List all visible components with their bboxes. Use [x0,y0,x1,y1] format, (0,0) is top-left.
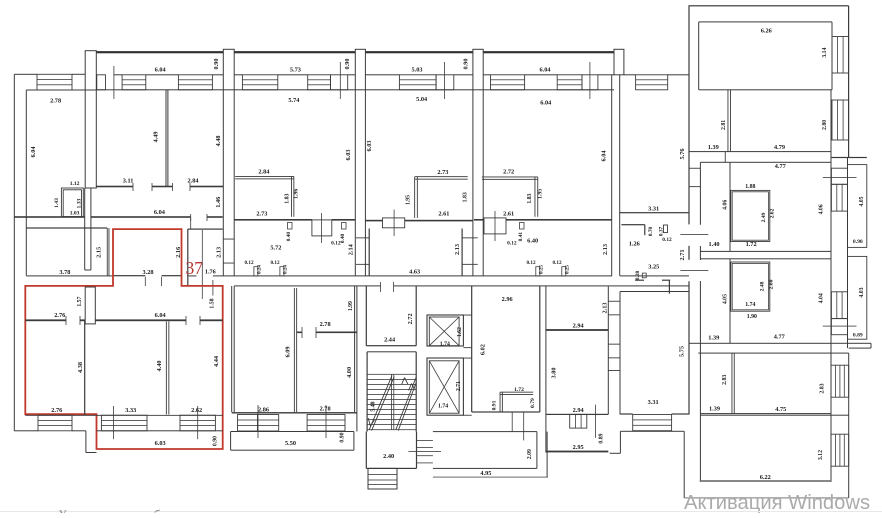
stair walls [367,352,368,432]
wall dbl right [608,286,609,414]
wall loggia s2 [234,74,242,75]
svg-text:3.11: 3.11 [123,178,134,185]
svg-text:2.86: 2.86 [258,407,269,414]
apt2 window divider [256,415,259,432]
window 4.04 [831,292,847,319]
svg-text:2.95: 2.95 [573,444,584,451]
svg-text:4.04: 4.04 [818,293,824,303]
svg-text:0.12: 0.12 [552,260,561,266]
elevator X 1 [429,317,459,346]
svg-text:37: 37 [186,258,204,278]
apt37 window b [101,415,147,431]
svg-text:6.04: 6.04 [601,150,608,162]
rooms 1.39/4.79 divider [727,90,730,152]
apt B bathroom [731,262,770,311]
wall loggia s1 [114,74,122,75]
balcony door s1 [97,75,106,90]
apt2 walls left [231,286,232,412]
wing right wall mid [847,157,848,348]
svg-text:2.44: 2.44 [384,337,396,344]
svg-text:1.72: 1.72 [514,387,524,393]
pier P4 wall [472,90,473,276]
svg-text:6.04: 6.04 [155,312,167,319]
apt B divider [730,259,731,344]
svg-text:2.09: 2.09 [527,449,533,459]
vent b [280,267,284,276]
svg-text:2.72: 2.72 [503,169,514,176]
hall 4.63 side walls [369,229,370,276]
svg-text:2.62: 2.62 [191,407,202,414]
window s5 [636,75,668,90]
apt C divider [731,353,734,414]
apt2 door tick [301,327,304,338]
window s4a [491,75,525,90]
window 4.06 [831,184,847,211]
apt37 wall mid rooms [165,321,168,414]
svg-text:5.74: 5.74 [288,97,300,104]
svg-text:5.72: 5.72 [270,245,281,252]
stair arrow up 2 [409,384,412,391]
svg-text:5.76: 5.76 [679,148,686,159]
tab bottom door [113,275,145,276]
pier P1 column [85,51,96,188]
outer wall top thick [96,51,614,53]
window 3.31 [633,415,672,431]
room 2.78 top face [26,90,96,91]
svg-text:1.43: 1.43 [54,198,60,208]
entry steps [368,468,397,489]
pier P2 column [223,49,234,90]
svg-text:0.12: 0.12 [526,260,535,266]
stair center divider [390,374,393,429]
svg-text:4.75: 4.75 [775,406,786,413]
porch door tick [408,450,441,453]
elevator X 2 [429,361,459,413]
svg-text:0.12: 0.12 [244,260,253,266]
svg-text:1.83: 1.83 [527,193,533,203]
hall 1.76 walls [187,229,188,286]
apt37 hall wall [25,319,66,321]
apt2 window b [307,415,345,432]
svg-text:1.58: 1.58 [210,298,216,308]
corridor band lower line [234,285,380,286]
svg-text:2.84: 2.84 [187,178,199,185]
window 3.12 [831,434,849,466]
porch steps [417,439,433,442]
svg-text:0.90: 0.90 [462,58,469,69]
svg-text:1.62: 1.62 [457,327,463,337]
apt2 entry door [312,220,332,236]
room 2.13/2.94 walls [546,329,608,331]
wing band1 [689,151,831,152]
svg-text:1.33: 1.33 [76,199,82,209]
lobby exit ticks [511,412,514,432]
svg-text:0.25: 0.25 [565,265,571,274]
svg-text:2.94: 2.94 [573,323,585,330]
svg-text:0.90: 0.90 [213,436,219,446]
svg-text:5.48: 5.48 [370,401,376,411]
apt37 window a [38,415,72,431]
apt C bottom [700,413,831,414]
corridor door jambs [189,214,192,221]
svg-text:1.40: 1.40 [708,241,719,248]
svg-text:2.78: 2.78 [50,98,61,105]
svg-text:0.90: 0.90 [213,58,220,69]
apt2 win tick b [325,405,328,438]
balcony band top [831,157,867,158]
svg-text:1.57: 1.57 [77,296,83,306]
apt2 win tick a [257,405,260,438]
svg-text:3.28: 3.28 [142,269,153,276]
svg-text:0.40: 0.40 [286,232,292,242]
svg-text:1.95: 1.95 [538,189,544,199]
window tick s4 [589,62,592,99]
svg-text:1.46: 1.46 [215,197,222,208]
shaft wall rungs [463,314,471,317]
svg-text:3.80: 3.80 [551,367,558,378]
svg-text:0.91: 0.91 [491,400,497,410]
svg-text:2.81: 2.81 [721,120,727,130]
wing band2 [700,251,831,252]
svg-text:2.80: 2.80 [822,120,828,130]
svg-text:0.79: 0.79 [530,398,536,408]
room 3.78 box [26,227,107,228]
svg-text:0.12: 0.12 [507,240,517,246]
rooms top line [96,89,223,90]
apt37 win tick b [196,406,199,439]
wall loggia s4 [483,74,490,75]
window s1a [122,75,146,90]
window 4.04 sidelight [831,319,847,335]
svg-text:1.74: 1.74 [438,404,448,410]
svg-text:2.61: 2.61 [503,211,514,218]
svg-text:5.04: 5.04 [416,96,428,103]
svg-text:6.04: 6.04 [540,100,552,107]
apt37 red outline [25,229,222,449]
svg-text:3.31: 3.31 [648,205,659,212]
svg-text:6.26: 6.26 [761,28,772,35]
svg-text:1.90: 1.90 [747,314,757,320]
apt37 pier [85,287,95,324]
window s4b [557,75,582,90]
svg-text:6.03: 6.03 [345,149,352,160]
apt1 bathroom [235,175,294,178]
svg-text:1.95: 1.95 [406,195,412,205]
svg-text:0.38: 0.38 [635,270,641,280]
vent 0.38 [642,273,646,278]
lobby closet [500,391,533,394]
apt A divider [730,162,731,251]
svg-text:6.40: 6.40 [527,237,538,244]
hall 4.63 top wall [365,220,382,222]
svg-text:2.60: 2.60 [769,279,775,289]
niche 1.26 wall [621,224,644,225]
wall top left [14,74,37,75]
room 3.31/5.75 [620,291,689,292]
svg-text:2.15: 2.15 [95,247,102,258]
apt A bathroom [731,190,770,241]
apt3 bathroom [482,176,538,179]
stair arrow up 1 [402,378,405,385]
svg-text:0.89: 0.89 [853,333,863,339]
svg-text:2.94: 2.94 [573,407,585,414]
wall loggia s3 [365,74,399,75]
apt3 entry door [484,218,506,234]
svg-text:2.73: 2.73 [256,211,267,218]
svg-text:2.83: 2.83 [820,383,826,393]
svg-text:3.78: 3.78 [59,269,70,276]
svg-text:Характеристика базового жилья: Характеристика базового жилья [58,508,242,514]
wing inner left [700,162,701,225]
window 4.06 sidelight [831,168,847,184]
window tick s1 [113,66,116,99]
svg-text:2.78: 2.78 [320,321,331,328]
wing top wall [689,5,849,6]
vestibule 2.44 [366,286,367,346]
stair flight 2 rail [396,378,416,430]
svg-text:2.13: 2.13 [216,247,223,258]
svg-text:0.90: 0.90 [344,58,351,69]
core-right wall [545,286,546,453]
svg-text:6.03: 6.03 [155,440,166,447]
wing door ticks [680,233,708,236]
pier P3 wall [355,90,356,276]
svg-text:0.90: 0.90 [853,239,863,245]
svg-text:0.40: 0.40 [340,233,346,243]
svg-text:0.12: 0.12 [331,240,341,246]
bottom rule [0,511,882,512]
svg-text:2.49: 2.49 [761,212,767,222]
svg-text:3.25: 3.25 [648,264,659,271]
apt2 bottom wall [232,412,357,413]
svg-text:2.62: 2.62 [770,208,776,218]
window 3.14 [832,37,849,74]
corridor band bottom line [26,275,113,276]
svg-text:Активация Windows: Активация Windows [684,492,870,513]
balcony 2 [848,256,867,339]
svg-text:4.48: 4.48 [215,135,222,146]
window s2a [242,75,277,90]
elevator shaft 2 [427,358,463,415]
svg-text:0.25: 0.25 [539,265,545,274]
stair flight 1 rail [369,376,392,430]
svg-text:0.37: 0.37 [658,226,664,236]
svg-text:0.12: 0.12 [270,260,279,266]
stair steps [367,373,416,376]
svg-text:1.72: 1.72 [746,241,757,248]
svg-text:1.83: 1.83 [285,193,291,203]
svg-text:2.14: 2.14 [348,243,355,255]
svg-text:0.90: 0.90 [340,432,346,442]
door ticks hall [201,230,204,299]
svg-text:1.99: 1.99 [348,301,354,311]
svg-text:6.04: 6.04 [155,67,167,74]
corridor bottom wall left [14,216,85,218]
vent 0.40 b [342,223,347,230]
vent 0.40 a [288,223,293,230]
svg-text:0.89: 0.89 [598,433,604,443]
svg-text:6.22: 6.22 [760,474,771,481]
svg-text:1.03: 1.03 [70,211,80,217]
wallA door rungs [223,238,234,241]
svg-text:6.02: 6.02 [479,344,486,355]
outer wall bottom left [14,430,38,431]
svg-text:5.50: 5.50 [285,440,296,447]
bottom-right contour [610,452,611,455]
svg-text:1.39: 1.39 [708,144,719,151]
svg-text:1.12: 1.12 [70,181,80,187]
hall side door right [462,236,478,239]
svg-text:3.12: 3.12 [818,450,824,460]
porch 4.95 box [433,431,537,432]
window 4.04 tick [823,325,857,328]
svg-text:1.96: 1.96 [294,189,300,199]
svg-text:4.40: 4.40 [156,360,163,371]
wing band3 [689,343,871,344]
wing wall rungs [689,167,700,170]
room 3.80 [546,414,608,415]
svg-text:2.40: 2.40 [383,453,394,460]
hall door jamb [189,218,192,229]
svg-text:1.39: 1.39 [708,335,719,342]
window 2.94 [570,414,587,428]
svg-text:4.00: 4.00 [346,367,353,378]
closet walls [61,188,83,217]
svg-text:2.13: 2.13 [454,244,461,255]
entry 2.40 [366,432,367,469]
apt37 wall left rooms [84,320,85,415]
window 2.80 [832,100,849,140]
wing right wall inner [831,90,832,482]
apt37 window c [180,415,215,431]
pier P3 column [355,49,365,90]
svg-text:4.79: 4.79 [774,144,785,151]
svg-text:2.61: 2.61 [438,210,449,217]
rooms bottom wall [96,186,133,188]
svg-text:2.71: 2.71 [679,249,686,260]
apt right walls [611,75,612,276]
vent d [562,267,566,276]
wall 2.95 [546,451,608,453]
svg-text:2.76: 2.76 [51,407,62,414]
svg-text:6.09: 6.09 [285,346,292,357]
svg-text:0.24: 0.24 [283,265,289,274]
window tick s2 [339,62,342,99]
window tick s3 [443,62,446,99]
apt37 win tick a [112,406,115,439]
svg-text:0.41: 0.41 [518,232,524,242]
elevator cab 1 [429,317,459,346]
tab door jambs [144,277,147,286]
apt2 walls right [354,286,355,412]
vestibule door [379,282,382,292]
window s3a [399,75,436,90]
elevator shaft 1 [427,315,463,346]
svg-text:2.84: 2.84 [258,169,270,176]
svg-text:0.12: 0.12 [662,237,672,243]
svg-text:6.03: 6.03 [366,140,373,151]
svg-text:4.05: 4.05 [859,196,865,206]
elevator cab 2 [429,361,459,413]
svg-text:2.78: 2.78 [320,405,331,412]
window 2.83 [831,365,849,397]
svg-text:2.13: 2.13 [601,302,608,313]
svg-text:6.04: 6.04 [154,209,166,216]
stair arrow down [368,418,370,426]
door leaf 0.37 [664,225,668,233]
apt37 bottom wall [25,414,222,417]
svg-text:0.70: 0.70 [648,226,654,236]
wing bottom wall [700,480,831,482]
apt2 divider h [297,332,302,334]
wing left wall [688,6,689,225]
svg-text:2.72: 2.72 [407,313,414,324]
stair top line [367,351,416,352]
window s1b [178,75,212,90]
svg-text:5.75: 5.75 [679,346,686,357]
svg-text:1.39: 1.39 [709,406,720,413]
svg-text:0.24: 0.24 [257,265,263,274]
corridor 6.40 top wall [474,219,484,221]
apt2 balcony [231,431,354,432]
svg-text:5.03: 5.03 [411,67,422,74]
wing right wall upper [848,6,849,157]
balcony door s3 [436,75,454,90]
balcony 1 [848,165,867,248]
svg-text:4.05: 4.05 [723,294,729,304]
apt2 window a [238,415,279,432]
svg-text:1.74: 1.74 [745,302,755,308]
svg-text:4.63: 4.63 [409,269,420,276]
svg-text:4.49: 4.49 [152,131,159,142]
balcony door s2 [331,75,348,90]
lobby walls [471,286,472,412]
svg-text:4.06: 4.06 [723,200,729,210]
svg-text:1.83: 1.83 [463,192,469,202]
svg-text:2.76: 2.76 [54,312,65,319]
svg-text:6.04: 6.04 [30,146,37,158]
svg-text:2.13: 2.13 [602,244,609,255]
window left room [37,74,72,90]
svg-text:6.04: 6.04 [539,67,551,74]
room 2.78 left face [26,90,27,276]
svg-text:2.48: 2.48 [760,281,766,291]
room 6.26 [699,21,832,22]
vent 0.41 [520,223,525,230]
svg-text:3.33: 3.33 [125,407,136,414]
apt37 door ticks [65,316,68,325]
divider rooms 4.49/4.48 [166,90,167,187]
pier P5 column [614,49,624,75]
svg-text:2.96: 2.96 [502,296,513,303]
apt2 divider v [293,288,296,412]
vent c [536,267,540,276]
room 5.76 bottom [620,212,689,213]
svg-text:4.95: 4.95 [480,470,491,477]
svg-text:2.83: 2.83 [722,375,728,385]
vent a [254,267,258,276]
svg-text:5.73: 5.73 [290,67,301,74]
svg-text:4.03: 4.03 [859,287,865,297]
win tick 2.94 [594,405,597,438]
hall side door left [356,236,369,239]
pier P4 column [473,49,483,90]
svg-text:4.44: 4.44 [213,355,220,367]
svg-text:4.77: 4.77 [775,163,786,170]
outer wall left [14,74,15,431]
svg-text:1.74: 1.74 [440,341,450,347]
svg-text:3.14: 3.14 [822,47,828,57]
